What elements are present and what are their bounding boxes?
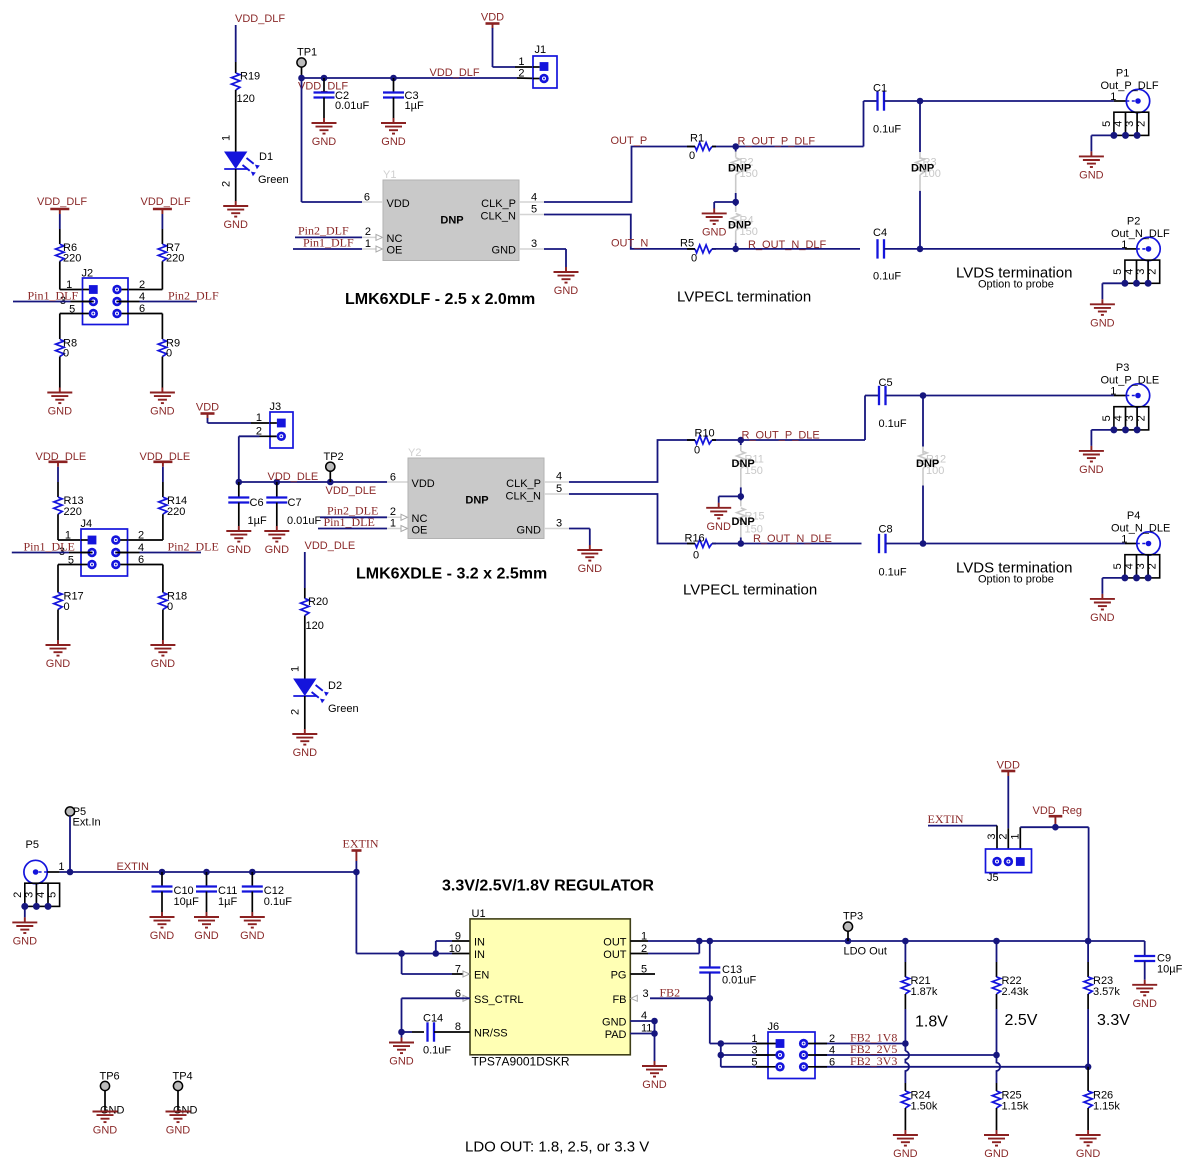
svg-text:1.15k: 1.15k (1002, 1101, 1029, 1113)
svg-text:VDD: VDD (196, 402, 219, 414)
svg-text:1µF: 1µF (248, 515, 267, 527)
svg-text:0.01uF: 0.01uF (722, 975, 757, 987)
svg-text:FB: FB (612, 994, 626, 1006)
svg-text:5: 5 (1112, 269, 1124, 275)
svg-text:VDD_DLE: VDD_DLE (326, 485, 377, 497)
svg-text:VDD: VDD (387, 198, 410, 210)
svg-text:FB2_3V3: FB2_3V3 (850, 1054, 897, 1068)
svg-text:C8: C8 (879, 524, 893, 536)
svg-text:GND: GND (150, 406, 175, 418)
svg-text:3: 3 (643, 988, 649, 1000)
svg-text:0.1uF: 0.1uF (264, 896, 292, 908)
svg-text:5: 5 (751, 1056, 757, 1068)
svg-text:IN: IN (474, 949, 485, 961)
svg-text:GND: GND (1132, 998, 1157, 1010)
svg-text:Ext.In: Ext.In (73, 817, 101, 829)
svg-text:GND: GND (1090, 612, 1115, 624)
svg-text:1: 1 (290, 666, 302, 672)
svg-text:3.3V: 3.3V (1097, 1012, 1130, 1029)
svg-text:0.1uF: 0.1uF (873, 124, 901, 136)
svg-text:C5: C5 (879, 377, 893, 389)
svg-text:DNP: DNP (465, 495, 488, 507)
svg-text:TP2: TP2 (324, 451, 344, 463)
svg-text:2: 2 (1147, 269, 1159, 275)
svg-text:LVPECL termination: LVPECL termination (677, 289, 811, 306)
svg-text:GND: GND (151, 658, 176, 670)
svg-text:1: 1 (1121, 239, 1127, 251)
svg-text:3: 3 (1135, 563, 1147, 569)
svg-text:Out_P_DLF: Out_P_DLF (1101, 80, 1159, 92)
svg-text:2: 2 (1147, 563, 1159, 569)
svg-text:10: 10 (449, 943, 461, 955)
svg-text:3: 3 (986, 833, 998, 839)
svg-text:4: 4 (531, 192, 537, 204)
svg-text:GND: GND (265, 544, 290, 556)
svg-text:3: 3 (531, 238, 537, 250)
svg-text:CLK_N: CLK_N (481, 211, 517, 223)
svg-text:120: 120 (237, 93, 255, 105)
svg-text:OE: OE (412, 525, 428, 537)
svg-text:6: 6 (390, 472, 396, 484)
svg-text:C14: C14 (423, 1013, 443, 1025)
svg-text:0: 0 (689, 150, 695, 162)
svg-text:VDD_DLF: VDD_DLF (235, 13, 285, 25)
svg-text:Pin1_DLE: Pin1_DLE (24, 539, 75, 553)
svg-text:0: 0 (691, 253, 697, 265)
svg-text:0.01uF: 0.01uF (287, 515, 322, 527)
svg-text:GND: GND (893, 1148, 918, 1160)
svg-text:TP3: TP3 (843, 911, 863, 923)
svg-text:GND: GND (13, 935, 38, 947)
svg-text:Out_N_DLF: Out_N_DLF (1111, 228, 1170, 240)
svg-text:CLK_P: CLK_P (506, 478, 541, 490)
svg-text:R10: R10 (695, 428, 715, 440)
svg-text:LDO OUT: 1.8, 2.5, or 3.3 V: LDO OUT: 1.8, 2.5, or 3.3 V (465, 1139, 649, 1156)
svg-text:GND: GND (1079, 464, 1104, 476)
svg-text:Pin1_DLF: Pin1_DLF (28, 289, 79, 303)
svg-text:P2: P2 (1127, 215, 1140, 227)
svg-text:1: 1 (221, 135, 233, 141)
svg-text:TPS7A9001DSKR: TPS7A9001DSKR (472, 1055, 570, 1069)
svg-text:Pin1_DLF: Pin1_DLF (303, 236, 354, 250)
svg-text:Y1: Y1 (383, 169, 396, 181)
svg-text:7: 7 (455, 964, 461, 976)
svg-text:3: 3 (1135, 269, 1147, 275)
svg-text:DNP: DNP (440, 215, 463, 227)
svg-text:VDD_DLE: VDD_DLE (268, 471, 319, 483)
svg-text:LMK6XDLF - 2.5 x 2.0mm: LMK6XDLF - 2.5 x 2.0mm (345, 291, 535, 308)
svg-text:PAD: PAD (605, 1029, 627, 1041)
svg-text:VDD_DLE: VDD_DLE (305, 540, 356, 552)
svg-text:GND: GND (702, 226, 727, 238)
svg-text:GND: GND (312, 136, 337, 148)
svg-text:220: 220 (64, 506, 82, 518)
svg-text:3: 3 (1124, 415, 1136, 421)
svg-text:VDD_DLF: VDD_DLF (37, 196, 87, 208)
svg-text:1.8V: 1.8V (915, 1014, 948, 1031)
svg-text:2: 2 (138, 530, 144, 542)
svg-text:150: 150 (745, 465, 763, 477)
svg-text:1: 1 (256, 412, 262, 424)
svg-text:2: 2 (12, 892, 24, 898)
svg-text:220: 220 (63, 253, 81, 265)
svg-text:2: 2 (1136, 415, 1148, 421)
svg-text:NR/SS: NR/SS (474, 1028, 508, 1040)
svg-text:EXTIN: EXTIN (343, 837, 379, 851)
svg-text:EN: EN (474, 970, 489, 982)
svg-text:120: 120 (306, 620, 324, 632)
svg-text:R16: R16 (685, 533, 705, 545)
svg-text:150: 150 (745, 524, 763, 536)
svg-text:R_OUT_N_DLE: R_OUT_N_DLE (753, 533, 832, 545)
svg-text:6: 6 (364, 192, 370, 204)
svg-text:GND: GND (240, 930, 265, 942)
svg-text:3.57k: 3.57k (1093, 986, 1120, 998)
svg-text:Pin2_DLE: Pin2_DLE (168, 539, 219, 553)
svg-text:0: 0 (63, 348, 69, 360)
svg-text:GND: GND (93, 1125, 118, 1137)
svg-text:Option to probe: Option to probe (978, 279, 1054, 291)
svg-text:0.01uF: 0.01uF (335, 100, 370, 112)
svg-text:P4: P4 (1127, 510, 1140, 522)
svg-text:Green: Green (258, 174, 289, 186)
svg-text:1: 1 (1121, 534, 1127, 546)
svg-text:Green: Green (328, 703, 359, 715)
svg-text:0: 0 (167, 601, 173, 613)
svg-text:GND: GND (578, 563, 603, 575)
svg-text:R20: R20 (308, 596, 328, 608)
svg-text:4: 4 (35, 892, 47, 898)
svg-text:OUT: OUT (603, 937, 627, 949)
svg-text:4: 4 (1113, 121, 1125, 127)
svg-text:C7: C7 (288, 497, 302, 509)
svg-text:2: 2 (365, 226, 371, 238)
svg-text:Option to probe: Option to probe (978, 574, 1054, 586)
svg-text:OUT: OUT (603, 949, 627, 961)
svg-text:1: 1 (1110, 91, 1116, 103)
svg-text:0.1uF: 0.1uF (423, 1045, 451, 1057)
svg-text:CLK_P: CLK_P (481, 198, 516, 210)
svg-text:150: 150 (740, 226, 758, 238)
svg-text:4: 4 (1124, 269, 1136, 275)
svg-text:2: 2 (290, 709, 302, 715)
svg-text:TP4: TP4 (173, 1071, 193, 1083)
svg-text:TP1: TP1 (297, 47, 317, 59)
svg-text:EXTIN: EXTIN (117, 861, 149, 873)
svg-text:0: 0 (694, 445, 700, 457)
svg-text:150: 150 (740, 168, 758, 180)
svg-text:P1: P1 (1116, 68, 1129, 80)
svg-text:GND: GND (293, 747, 318, 759)
svg-text:1.87k: 1.87k (911, 986, 938, 998)
svg-text:5: 5 (47, 892, 59, 898)
svg-text:CLK_N: CLK_N (506, 491, 542, 503)
svg-text:1: 1 (365, 238, 371, 250)
svg-text:1.50k: 1.50k (911, 1101, 938, 1113)
svg-text:0: 0 (64, 601, 70, 613)
svg-text:OUT_N: OUT_N (611, 238, 648, 250)
svg-text:GND: GND (1090, 317, 1115, 329)
svg-text:NC: NC (387, 233, 403, 245)
svg-text:1µF: 1µF (405, 100, 424, 112)
svg-text:0.1uF: 0.1uF (873, 271, 901, 283)
svg-text:EXTIN: EXTIN (928, 812, 964, 826)
svg-text:C1: C1 (873, 83, 887, 95)
svg-text:R5: R5 (680, 238, 694, 250)
svg-text:GND: GND (194, 930, 219, 942)
svg-text:VDD_DLF: VDD_DLF (141, 196, 191, 208)
svg-text:VDD: VDD (481, 12, 504, 24)
svg-text:GND: GND (984, 1148, 1009, 1160)
svg-text:2: 2 (997, 833, 1009, 839)
svg-text:LMK6XDLE - 3.2 x 2.5mm: LMK6XDLE - 3.2 x 2.5mm (356, 566, 547, 583)
svg-text:NC: NC (412, 513, 428, 525)
svg-text:VDD: VDD (412, 478, 435, 490)
svg-text:0.1uF: 0.1uF (879, 567, 907, 579)
svg-text:D1: D1 (259, 151, 273, 163)
svg-text:5: 5 (556, 483, 562, 495)
svg-text:R_OUT_N_DLF: R_OUT_N_DLF (748, 239, 827, 251)
svg-text:R1: R1 (690, 133, 704, 145)
svg-text:100: 100 (926, 465, 944, 477)
svg-text:SS_CTRL: SS_CTRL (474, 994, 524, 1006)
svg-text:0: 0 (693, 550, 699, 562)
svg-text:GND: GND (602, 1017, 627, 1029)
svg-text:P3: P3 (1116, 362, 1129, 374)
svg-text:2.43k: 2.43k (1002, 986, 1029, 998)
svg-text:IN: IN (474, 937, 485, 949)
svg-text:VDD_DLF: VDD_DLF (430, 67, 480, 79)
svg-text:3: 3 (1124, 121, 1136, 127)
svg-text:J1: J1 (535, 44, 547, 56)
svg-text:4: 4 (829, 1045, 835, 1057)
svg-text:R_OUT_P_DLE: R_OUT_P_DLE (742, 430, 820, 442)
svg-text:0.1uF: 0.1uF (879, 418, 907, 430)
svg-text:3: 3 (556, 518, 562, 530)
svg-text:C4: C4 (873, 227, 887, 239)
svg-text:3.3V/2.5V/1.8V REGULATOR: 3.3V/2.5V/1.8V REGULATOR (442, 878, 654, 895)
svg-text:2.5V: 2.5V (1005, 1012, 1038, 1029)
svg-text:GND: GND (48, 406, 73, 418)
svg-text:GND: GND (223, 219, 248, 231)
svg-text:10µF: 10µF (174, 896, 200, 908)
svg-text:R_OUT_P_DLF: R_OUT_P_DLF (738, 136, 816, 148)
svg-text:GND: GND (389, 1056, 414, 1068)
svg-text:J5: J5 (987, 872, 999, 884)
svg-text:GND: GND (166, 1125, 191, 1137)
svg-text:C6: C6 (250, 497, 264, 509)
svg-text:P5: P5 (26, 839, 39, 851)
svg-text:4: 4 (556, 471, 562, 483)
svg-text:GND: GND (1079, 169, 1104, 181)
svg-text:TP6: TP6 (100, 1071, 120, 1083)
svg-text:PG: PG (611, 970, 627, 982)
svg-text:5: 5 (1101, 415, 1113, 421)
svg-text:Pin2_DLF: Pin2_DLF (168, 289, 219, 303)
svg-text:9: 9 (455, 931, 461, 943)
svg-text:3: 3 (23, 892, 35, 898)
svg-text:GND: GND (227, 544, 252, 556)
svg-text:R19: R19 (240, 71, 260, 83)
svg-text:2: 2 (518, 68, 524, 80)
svg-text:10µF: 10µF (1157, 964, 1183, 976)
svg-text:D2: D2 (328, 680, 342, 692)
svg-text:1: 1 (390, 518, 396, 530)
svg-text:1: 1 (518, 56, 524, 68)
svg-text:GND: GND (554, 285, 579, 297)
svg-text:OUT_P: OUT_P (611, 135, 648, 147)
svg-text:100: 100 (923, 168, 941, 180)
svg-text:4: 4 (1124, 563, 1136, 569)
svg-text:2: 2 (139, 279, 145, 291)
svg-text:5: 5 (531, 204, 537, 216)
svg-text:1: 1 (1009, 833, 1021, 839)
svg-text:0: 0 (166, 348, 172, 360)
svg-text:Out_N_DLE: Out_N_DLE (1111, 523, 1170, 535)
svg-text:2: 2 (221, 181, 233, 187)
svg-text:220: 220 (167, 506, 185, 518)
svg-text:2: 2 (390, 506, 396, 518)
svg-text:5: 5 (1112, 563, 1124, 569)
svg-text:Y2: Y2 (408, 447, 421, 459)
svg-text:GND: GND (492, 245, 517, 257)
svg-text:GND: GND (150, 930, 175, 942)
svg-text:1µF: 1µF (218, 896, 237, 908)
svg-text:LDO Out: LDO Out (844, 946, 887, 958)
svg-text:1: 1 (1110, 386, 1116, 398)
svg-text:GND: GND (381, 136, 406, 148)
svg-text:GND: GND (46, 658, 71, 670)
svg-text:GND: GND (706, 521, 731, 533)
svg-text:Pin1_DLE: Pin1_DLE (324, 515, 375, 529)
svg-text:GND: GND (517, 525, 542, 537)
svg-text:GND: GND (1076, 1148, 1101, 1160)
svg-text:220: 220 (166, 253, 184, 265)
svg-text:FB2: FB2 (660, 986, 681, 1000)
svg-text:LVPECL termination: LVPECL termination (683, 582, 817, 599)
svg-text:6: 6 (829, 1056, 835, 1068)
svg-text:4: 4 (1113, 415, 1125, 421)
svg-text:OE: OE (387, 245, 403, 257)
svg-text:2: 2 (1136, 121, 1148, 127)
svg-text:3: 3 (751, 1045, 757, 1057)
svg-text:2: 2 (829, 1033, 835, 1045)
svg-text:1: 1 (751, 1033, 757, 1045)
svg-text:5: 5 (1101, 121, 1113, 127)
svg-text:GND: GND (642, 1079, 667, 1091)
svg-text:1.15k: 1.15k (1093, 1101, 1120, 1113)
